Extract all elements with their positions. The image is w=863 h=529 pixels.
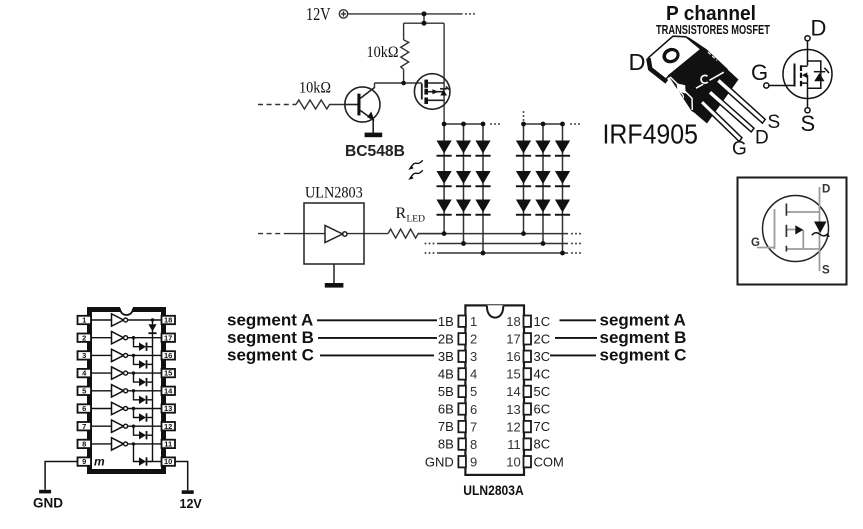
svg-text:6C: 6C (534, 402, 551, 417)
svg-text:8: 8 (470, 437, 477, 452)
svg-text:12V: 12V (306, 6, 331, 25)
svg-text:10kΩ: 10kΩ (299, 80, 331, 97)
svg-text:segment A: segment A (227, 310, 313, 329)
svg-text:7: 7 (470, 419, 477, 434)
svg-text:segment B: segment B (227, 328, 314, 347)
svg-text:segment C: segment C (600, 346, 687, 365)
svg-text:GND: GND (33, 496, 63, 511)
svg-text:GND: GND (425, 454, 454, 469)
svg-text:3: 3 (82, 351, 86, 360)
svg-text:4C: 4C (534, 367, 551, 382)
svg-text:7B: 7B (438, 419, 454, 434)
svg-text:1: 1 (470, 314, 477, 329)
svg-text:9: 9 (82, 457, 86, 466)
svg-text:3B: 3B (438, 349, 454, 364)
svg-text:7: 7 (82, 422, 86, 431)
svg-text:R: R (396, 205, 407, 222)
svg-text:13: 13 (164, 404, 172, 413)
svg-text:15: 15 (164, 369, 172, 378)
svg-text:5: 5 (470, 384, 477, 399)
svg-text:S: S (822, 265, 830, 277)
svg-text:12: 12 (506, 419, 520, 434)
svg-text:segment C: segment C (227, 346, 314, 365)
svg-text:segment A: segment A (600, 310, 686, 329)
svg-text:G: G (751, 60, 768, 85)
svg-text:11: 11 (507, 437, 521, 452)
svg-text:6B: 6B (438, 402, 454, 417)
svg-text:17: 17 (506, 332, 520, 347)
svg-text:2C: 2C (534, 331, 551, 346)
svg-text:IRF4905: IRF4905 (603, 118, 698, 150)
svg-text:D: D (811, 16, 827, 41)
svg-text:9: 9 (470, 455, 477, 470)
svg-text:12V: 12V (180, 497, 203, 511)
svg-text:segment B: segment B (600, 328, 687, 347)
svg-text:12: 12 (164, 422, 172, 431)
svg-text:1B: 1B (438, 314, 454, 329)
svg-text:D: D (755, 128, 769, 149)
svg-text:3C: 3C (534, 349, 551, 364)
svg-text:1: 1 (82, 316, 86, 325)
svg-text:TRANSISTORES MOSFET: TRANSISTORES MOSFET (656, 24, 770, 38)
svg-text:17: 17 (164, 333, 172, 342)
svg-text:BC548B: BC548B (345, 143, 405, 160)
svg-text:10kΩ: 10kΩ (367, 44, 399, 61)
svg-text:G: G (751, 237, 760, 249)
svg-text:18: 18 (164, 316, 172, 325)
svg-text:4B: 4B (438, 367, 454, 382)
svg-text:11: 11 (164, 440, 172, 449)
svg-text:6: 6 (82, 404, 86, 413)
svg-text:LED: LED (407, 215, 426, 225)
svg-text:14: 14 (164, 386, 173, 395)
svg-text:6: 6 (470, 402, 477, 417)
svg-text:D: D (629, 49, 646, 75)
svg-text:16: 16 (506, 349, 520, 364)
svg-text:13: 13 (506, 402, 520, 417)
svg-text:5: 5 (82, 386, 86, 395)
svg-text:ULN2803: ULN2803 (305, 185, 363, 202)
svg-text:1C: 1C (534, 314, 551, 329)
svg-text:S: S (801, 111, 816, 136)
svg-text:14: 14 (506, 384, 520, 399)
svg-text:P channel: P channel (666, 2, 756, 25)
svg-text:m: m (94, 455, 105, 469)
svg-text:10: 10 (506, 455, 520, 470)
svg-text:7C: 7C (534, 419, 551, 434)
svg-text:2B: 2B (438, 331, 454, 346)
svg-text:3: 3 (470, 349, 477, 364)
svg-text:8B: 8B (438, 437, 454, 452)
svg-text:COM: COM (534, 454, 564, 469)
svg-text:8: 8 (82, 440, 86, 449)
svg-text:5C: 5C (534, 384, 551, 399)
svg-text:5B: 5B (438, 384, 454, 399)
svg-text:18: 18 (506, 314, 520, 329)
svg-text:ULN2803A: ULN2803A (463, 482, 523, 498)
svg-text:15: 15 (506, 367, 520, 382)
svg-text:4: 4 (470, 367, 477, 382)
svg-text:S: S (768, 112, 781, 133)
svg-text:2: 2 (82, 333, 86, 342)
svg-text:10: 10 (164, 457, 172, 466)
svg-text:16: 16 (164, 351, 172, 360)
svg-text:D: D (822, 184, 830, 196)
svg-text:8C: 8C (534, 437, 551, 452)
svg-text:2: 2 (470, 332, 477, 347)
